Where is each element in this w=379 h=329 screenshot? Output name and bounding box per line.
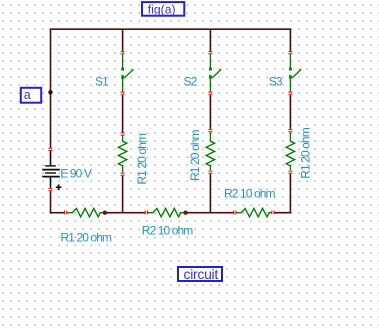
svg-text:R1 20 ohm: R1 20 ohm — [299, 127, 313, 179]
svg-text:a: a — [24, 88, 31, 102]
svg-text:R2 10 ohm: R2 10 ohm — [142, 224, 194, 238]
svg-text:fig(a): fig(a) — [148, 2, 176, 16]
svg-text:S3: S3 — [269, 75, 283, 89]
svg-text:E 90 V: E 90 V — [60, 167, 92, 181]
svg-text:S1: S1 — [95, 74, 109, 88]
svg-text:circuit: circuit — [184, 266, 219, 282]
svg-text:S2: S2 — [184, 74, 198, 88]
svg-text:R2 10 ohm: R2 10 ohm — [224, 187, 276, 201]
svg-text:R1 20 ohm: R1 20 ohm — [61, 231, 113, 245]
svg-text:R1 20 ohm: R1 20 ohm — [135, 133, 149, 185]
svg-text:R1 20 ohm: R1 20 ohm — [188, 129, 202, 181]
